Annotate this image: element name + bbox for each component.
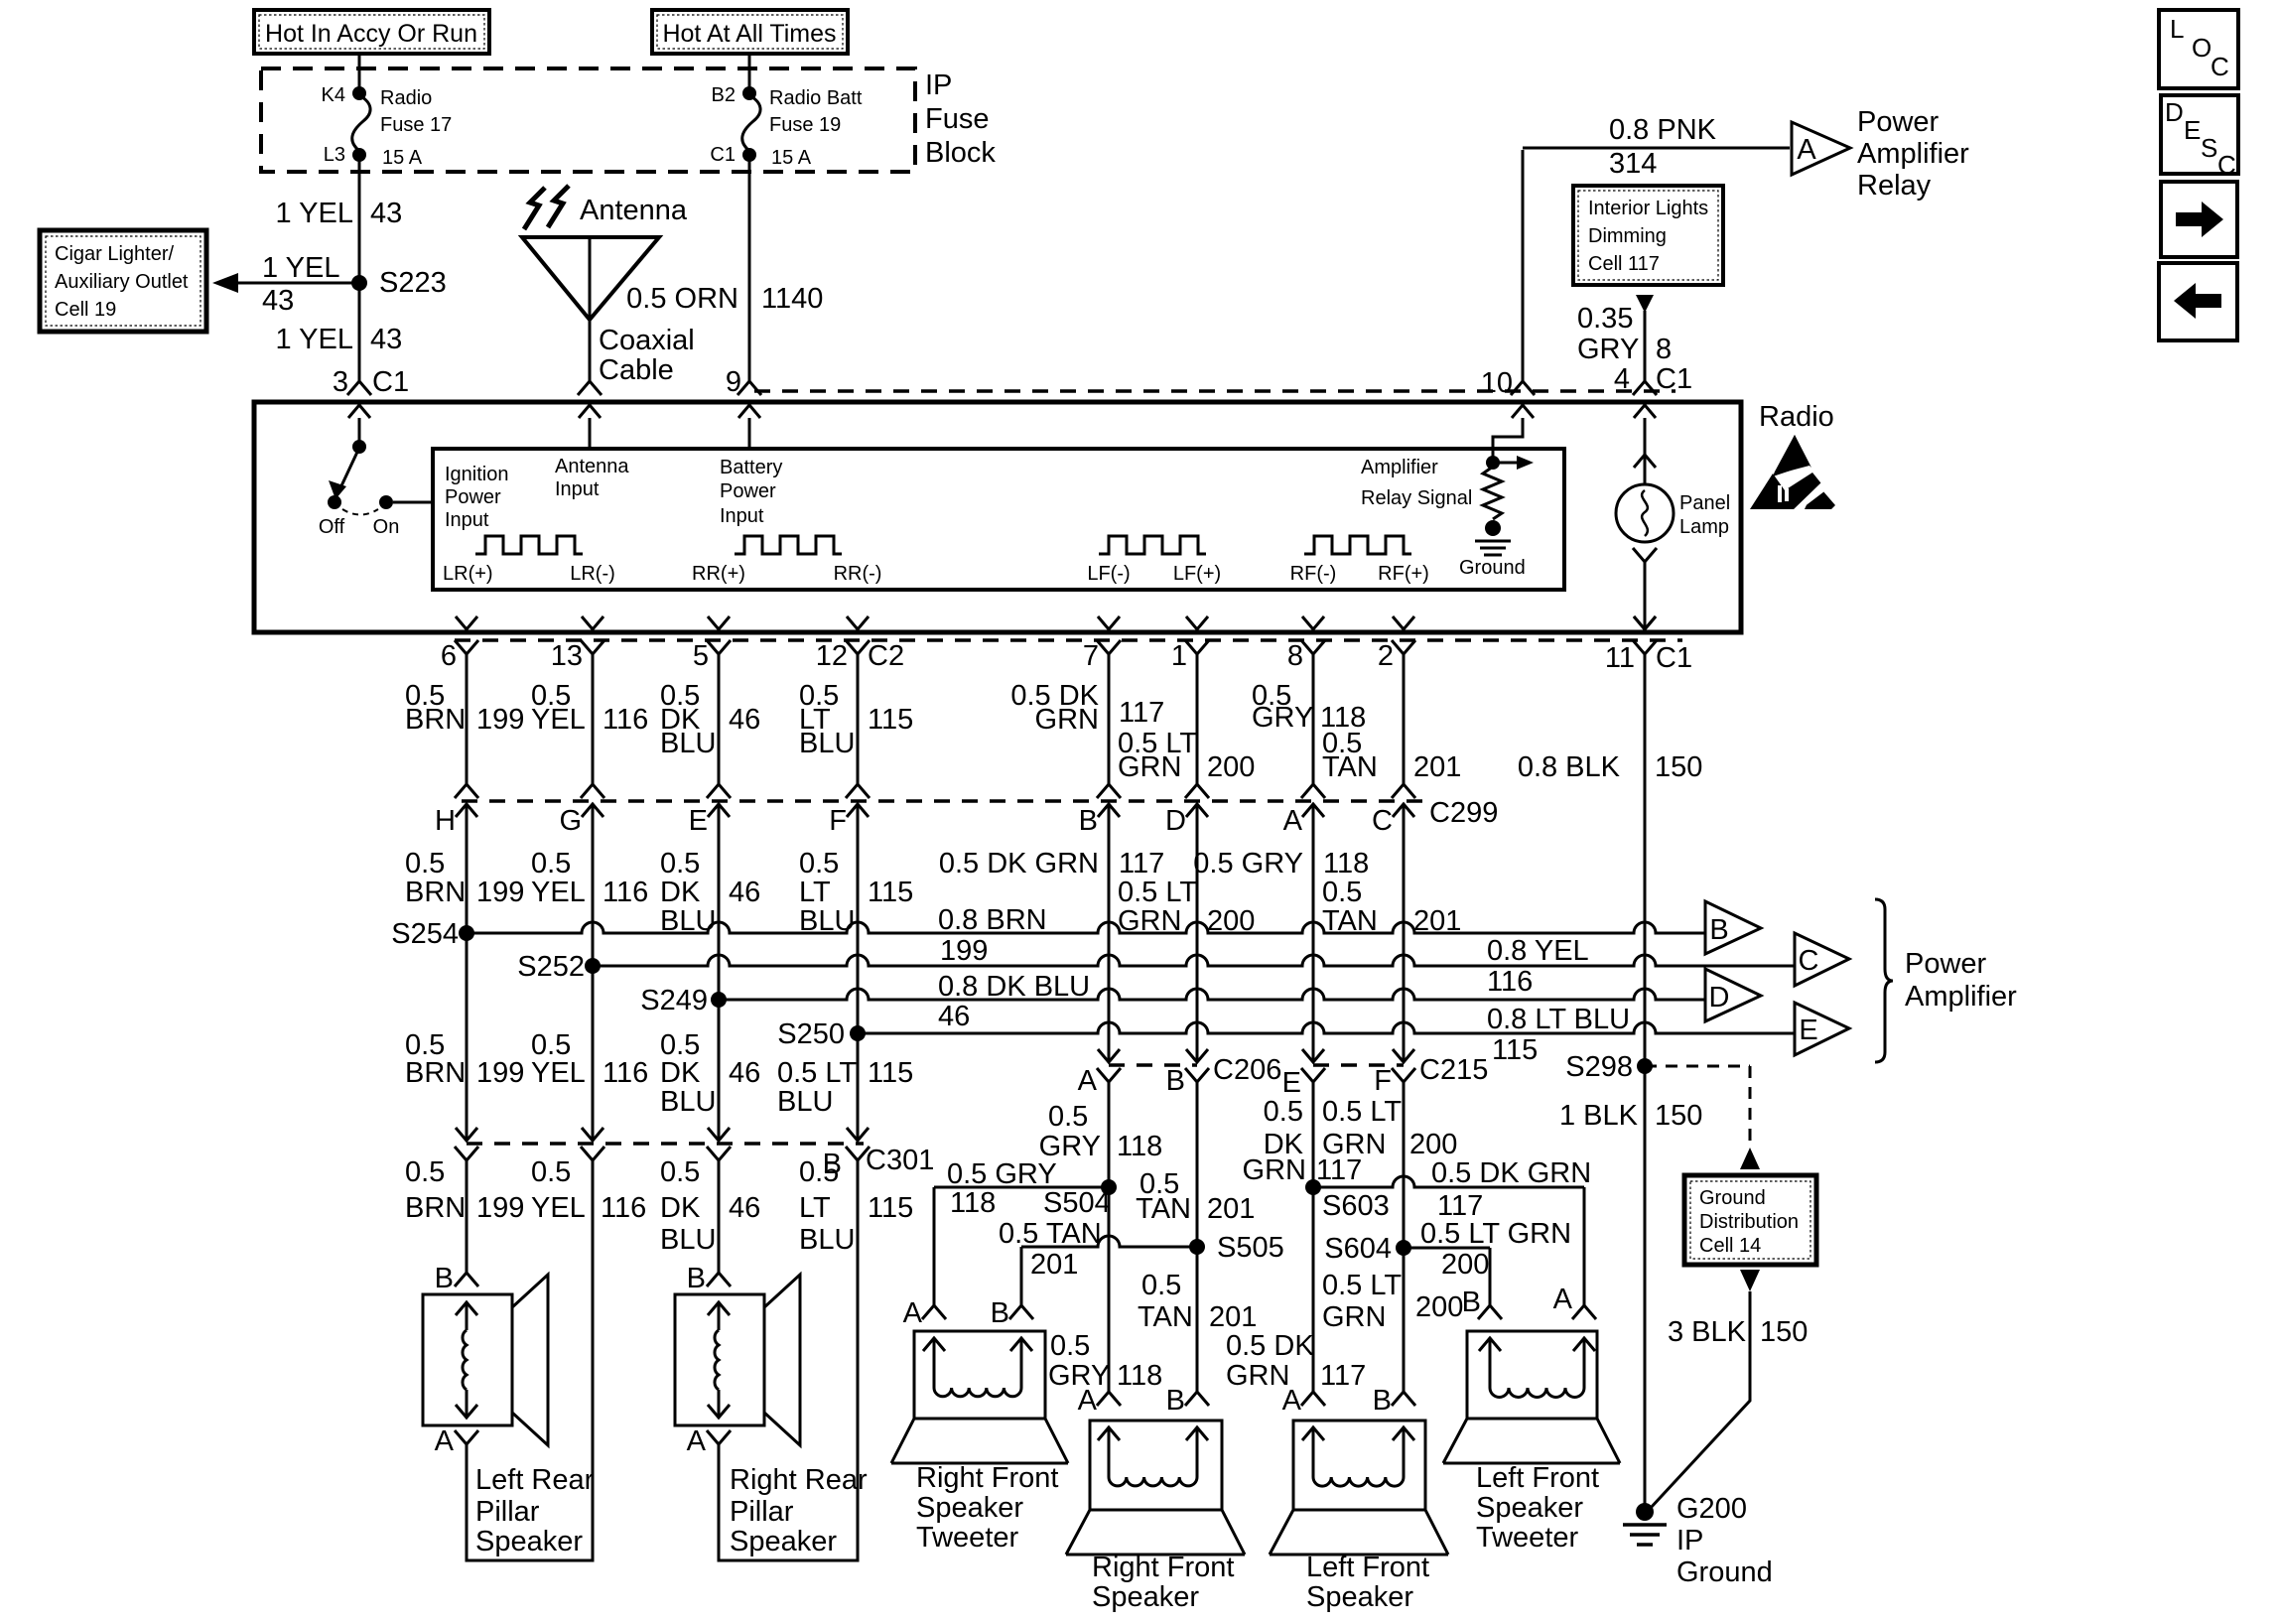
svg-text:116: 116 bbox=[603, 877, 648, 908]
svg-text:115: 115 bbox=[868, 1057, 913, 1089]
svg-text:118: 118 bbox=[1117, 1360, 1162, 1392]
svg-text:DK: DK bbox=[660, 877, 701, 908]
svg-text:12: 12 bbox=[816, 640, 848, 672]
svg-text:BRN: BRN bbox=[405, 1057, 466, 1089]
svg-text:0.5 TAN: 0.5 TAN bbox=[999, 1218, 1102, 1250]
svg-text:201: 201 bbox=[1030, 1249, 1078, 1281]
svg-text:Left Front: Left Front bbox=[1306, 1552, 1429, 1583]
svg-text:A: A bbox=[1553, 1284, 1573, 1315]
svg-text:0.5: 0.5 bbox=[1050, 1330, 1090, 1362]
svg-text:BLU: BLU bbox=[660, 1224, 716, 1256]
svg-text:200: 200 bbox=[1409, 1129, 1457, 1160]
svg-text:IP: IP bbox=[925, 69, 952, 101]
svg-text:YEL: YEL bbox=[531, 877, 586, 908]
svg-text:Fuse 17: Fuse 17 bbox=[380, 114, 452, 136]
svg-text:8: 8 bbox=[1656, 334, 1672, 365]
svg-text:E: E bbox=[1799, 1015, 1817, 1046]
svg-text:LR(+): LR(+) bbox=[443, 563, 493, 585]
svg-text:Cable: Cable bbox=[599, 354, 674, 386]
svg-text:C215: C215 bbox=[1419, 1054, 1488, 1086]
svg-text:0.5: 0.5 bbox=[799, 1156, 839, 1188]
svg-text:S505: S505 bbox=[1217, 1232, 1284, 1264]
svg-text:Amplifier: Amplifier bbox=[1361, 457, 1438, 478]
svg-text:199: 199 bbox=[476, 704, 524, 736]
svg-text:46: 46 bbox=[938, 1001, 970, 1032]
svg-text:B2: B2 bbox=[712, 84, 736, 106]
svg-text:A: A bbox=[435, 1425, 455, 1457]
svg-text:K4: K4 bbox=[322, 84, 345, 106]
svg-text:199: 199 bbox=[476, 1192, 524, 1224]
svg-text:TAN: TAN bbox=[1322, 751, 1378, 783]
svg-text:LT: LT bbox=[799, 1192, 831, 1224]
svg-text:1140: 1140 bbox=[761, 283, 823, 315]
svg-text:Block: Block bbox=[925, 137, 996, 169]
svg-text:Antenna: Antenna bbox=[555, 456, 629, 477]
svg-text:TAN: TAN bbox=[1136, 1193, 1191, 1225]
svg-text:Pillar: Pillar bbox=[730, 1496, 794, 1528]
svg-text:116: 116 bbox=[603, 1057, 648, 1089]
svg-text:LF(+): LF(+) bbox=[1173, 563, 1221, 585]
svg-text:116: 116 bbox=[601, 1192, 646, 1224]
svg-text:0.5: 0.5 bbox=[799, 848, 839, 880]
svg-text:Panel: Panel bbox=[1679, 492, 1730, 514]
svg-text:1: 1 bbox=[1171, 640, 1187, 672]
svg-text:117: 117 bbox=[1119, 848, 1164, 880]
svg-text:A: A bbox=[1078, 1385, 1098, 1417]
svg-text:GRY: GRY bbox=[1252, 702, 1313, 734]
svg-text:B: B bbox=[1462, 1286, 1481, 1318]
svg-text:YEL: YEL bbox=[531, 704, 586, 736]
svg-text:Amplifier: Amplifier bbox=[1905, 981, 2017, 1013]
svg-text:B: B bbox=[1079, 805, 1098, 837]
svg-text:Cell 14: Cell 14 bbox=[1699, 1235, 1761, 1257]
svg-text:7: 7 bbox=[1083, 640, 1099, 672]
svg-text:0.8 PNK: 0.8 PNK bbox=[1609, 114, 1717, 146]
svg-text:B: B bbox=[1166, 1385, 1185, 1417]
svg-text:0.5 DK: 0.5 DK bbox=[1226, 1330, 1314, 1362]
svg-text:RR(+): RR(+) bbox=[692, 563, 745, 585]
svg-text:E: E bbox=[689, 805, 708, 837]
svg-text:1 YEL: 1 YEL bbox=[276, 324, 353, 355]
svg-text:F: F bbox=[1374, 1065, 1392, 1097]
svg-text:Right Rear: Right Rear bbox=[730, 1464, 868, 1496]
svg-text:5: 5 bbox=[693, 640, 709, 672]
svg-text:46: 46 bbox=[729, 1192, 760, 1224]
svg-text:314: 314 bbox=[1609, 148, 1657, 180]
svg-text:BRN: BRN bbox=[405, 877, 466, 908]
svg-text:0.5: 0.5 bbox=[660, 848, 700, 880]
svg-text:Speaker: Speaker bbox=[916, 1492, 1023, 1524]
svg-text:RF(-): RF(-) bbox=[1290, 563, 1337, 585]
svg-text:46: 46 bbox=[729, 877, 760, 908]
svg-text:S504: S504 bbox=[1043, 1187, 1111, 1219]
svg-text:C: C bbox=[1372, 805, 1393, 837]
svg-text:L3: L3 bbox=[324, 144, 345, 166]
svg-text:E: E bbox=[2184, 115, 2201, 145]
svg-text:B: B bbox=[435, 1263, 454, 1294]
svg-text:Right Front: Right Front bbox=[1092, 1552, 1234, 1583]
svg-text:C1: C1 bbox=[372, 366, 409, 398]
svg-text:0.5 ORN: 0.5 ORN bbox=[626, 283, 738, 315]
svg-text:Fuse: Fuse bbox=[925, 103, 989, 135]
svg-text:0.5 LT: 0.5 LT bbox=[777, 1057, 857, 1089]
svg-text:117: 117 bbox=[1119, 697, 1164, 729]
svg-text:0.5 LT: 0.5 LT bbox=[1118, 877, 1197, 908]
svg-text:Speaker: Speaker bbox=[1306, 1581, 1413, 1613]
svg-text:BLU: BLU bbox=[660, 1086, 716, 1118]
svg-text:Relay Signal: Relay Signal bbox=[1361, 487, 1472, 509]
svg-text:Power: Power bbox=[1857, 106, 1940, 138]
svg-text:B: B bbox=[1709, 914, 1728, 946]
svg-text:201: 201 bbox=[1207, 1193, 1255, 1225]
svg-text:43: 43 bbox=[370, 324, 402, 355]
svg-text:Pillar: Pillar bbox=[475, 1496, 540, 1528]
svg-text:Power: Power bbox=[1905, 948, 1987, 980]
svg-text:C301: C301 bbox=[866, 1145, 934, 1176]
svg-text:S252: S252 bbox=[517, 951, 585, 983]
svg-text:D: D bbox=[1165, 805, 1186, 837]
svg-text:B: B bbox=[687, 1263, 706, 1294]
svg-text:Dimming: Dimming bbox=[1588, 225, 1667, 247]
svg-text:Left Rear: Left Rear bbox=[475, 1464, 595, 1496]
svg-text:LR(-): LR(-) bbox=[570, 563, 615, 585]
svg-text:0.5: 0.5 bbox=[531, 1156, 571, 1188]
svg-text:G200: G200 bbox=[1676, 1493, 1747, 1525]
svg-text:Hot At All Times: Hot At All Times bbox=[662, 20, 836, 48]
svg-text:199: 199 bbox=[476, 877, 524, 908]
svg-text:A: A bbox=[903, 1297, 923, 1329]
svg-text:Ignition: Ignition bbox=[445, 464, 509, 485]
svg-text:Cell 19: Cell 19 bbox=[55, 299, 116, 321]
svg-text:RR(-): RR(-) bbox=[834, 563, 882, 585]
svg-text:200: 200 bbox=[1441, 1249, 1489, 1281]
svg-text:A: A bbox=[1283, 805, 1303, 837]
svg-text:GRY: GRY bbox=[1577, 334, 1639, 365]
svg-text:43: 43 bbox=[262, 285, 294, 317]
svg-text:Coaxial: Coaxial bbox=[599, 325, 695, 356]
svg-text:0.5 DK GRN: 0.5 DK GRN bbox=[1431, 1157, 1591, 1189]
svg-text:9: 9 bbox=[726, 366, 741, 398]
svg-text:3 BLK: 3 BLK bbox=[1668, 1316, 1747, 1348]
svg-text:0.5: 0.5 bbox=[405, 1156, 445, 1188]
svg-text:115: 115 bbox=[868, 877, 913, 908]
svg-text:Ground: Ground bbox=[1459, 557, 1526, 579]
svg-text:Speaker: Speaker bbox=[730, 1526, 837, 1557]
svg-text:IP: IP bbox=[1676, 1525, 1703, 1556]
svg-text:Input: Input bbox=[445, 509, 489, 531]
svg-text:Radio: Radio bbox=[1759, 401, 1834, 433]
svg-text:S298: S298 bbox=[1565, 1051, 1633, 1083]
svg-text:GRN: GRN bbox=[1243, 1154, 1306, 1186]
svg-text:C1: C1 bbox=[710, 144, 736, 166]
svg-text:BRN: BRN bbox=[405, 1192, 466, 1224]
svg-text:Right Front: Right Front bbox=[916, 1462, 1058, 1494]
svg-text:G: G bbox=[559, 805, 582, 837]
svg-text:S604: S604 bbox=[1324, 1233, 1392, 1265]
svg-text:BLU: BLU bbox=[660, 728, 716, 759]
svg-text:Off: Off bbox=[319, 516, 345, 538]
svg-text:GRN: GRN bbox=[1226, 1360, 1289, 1392]
svg-text:0.5 DK GRN: 0.5 DK GRN bbox=[939, 848, 1099, 880]
svg-text:13: 13 bbox=[551, 640, 583, 672]
svg-text:115: 115 bbox=[1492, 1034, 1538, 1066]
svg-text:S: S bbox=[2201, 133, 2217, 163]
svg-text:0.5 LT: 0.5 LT bbox=[1322, 1096, 1402, 1128]
svg-text:0.5: 0.5 bbox=[1264, 1096, 1303, 1128]
svg-text:Fuse 19: Fuse 19 bbox=[769, 114, 841, 136]
svg-text:Interior Lights: Interior Lights bbox=[1588, 198, 1708, 219]
svg-text:Lamp: Lamp bbox=[1679, 516, 1729, 538]
svg-text:F: F bbox=[829, 805, 847, 837]
svg-text:B: B bbox=[991, 1297, 1009, 1329]
svg-text:Input: Input bbox=[555, 478, 600, 500]
svg-text:B: B bbox=[1166, 1065, 1185, 1097]
svg-text:200: 200 bbox=[1207, 751, 1255, 783]
svg-text:C1: C1 bbox=[1656, 642, 1692, 674]
svg-text:C206: C206 bbox=[1213, 1054, 1281, 1086]
svg-text:Ground: Ground bbox=[1699, 1187, 1766, 1209]
svg-text:Distribution: Distribution bbox=[1699, 1211, 1799, 1233]
svg-text:BLU: BLU bbox=[799, 1224, 855, 1256]
svg-text:LT: LT bbox=[799, 877, 831, 908]
svg-text:0.5: 0.5 bbox=[531, 848, 571, 880]
svg-text:0.8 LT BLU: 0.8 LT BLU bbox=[1487, 1004, 1630, 1035]
svg-text:Cell 117: Cell 117 bbox=[1588, 253, 1660, 275]
svg-text:118: 118 bbox=[1323, 848, 1369, 880]
svg-text:46: 46 bbox=[729, 704, 760, 736]
svg-text:A: A bbox=[1282, 1385, 1302, 1417]
svg-text:Radio Batt: Radio Batt bbox=[769, 87, 863, 109]
svg-text:201: 201 bbox=[1209, 1301, 1257, 1333]
svg-text:150: 150 bbox=[1655, 751, 1702, 783]
svg-text:DK: DK bbox=[660, 1057, 701, 1089]
svg-text:Relay: Relay bbox=[1857, 170, 1932, 202]
svg-text:Cigar Lighter/: Cigar Lighter/ bbox=[55, 243, 175, 265]
svg-text:LF(-): LF(-) bbox=[1087, 563, 1130, 585]
svg-text:C: C bbox=[2217, 150, 2236, 180]
svg-text:Battery: Battery bbox=[720, 457, 782, 478]
svg-text:0.5: 0.5 bbox=[1322, 877, 1362, 908]
svg-text:D: D bbox=[1709, 982, 1730, 1014]
svg-text:S223: S223 bbox=[379, 267, 447, 299]
svg-text:S254: S254 bbox=[391, 918, 459, 950]
svg-text:0.8 BRN: 0.8 BRN bbox=[938, 904, 1047, 936]
svg-text:201: 201 bbox=[1413, 751, 1461, 783]
svg-text:43: 43 bbox=[370, 198, 402, 229]
svg-text:2: 2 bbox=[1378, 640, 1394, 672]
svg-text:Amplifier: Amplifier bbox=[1857, 138, 1969, 170]
svg-text:L: L bbox=[2170, 14, 2184, 44]
svg-text:0.5: 0.5 bbox=[1141, 1270, 1181, 1301]
svg-text:C299: C299 bbox=[1429, 797, 1498, 829]
svg-text:Tweeter: Tweeter bbox=[1476, 1522, 1578, 1554]
svg-text:Input: Input bbox=[720, 505, 764, 527]
svg-text:0.5: 0.5 bbox=[405, 848, 445, 880]
svg-text:E: E bbox=[1282, 1067, 1301, 1099]
svg-text:117: 117 bbox=[1320, 1360, 1366, 1392]
svg-text:A: A bbox=[687, 1425, 707, 1457]
svg-text:1 YEL: 1 YEL bbox=[262, 252, 339, 284]
svg-text:46: 46 bbox=[729, 1057, 760, 1089]
svg-text:GRN: GRN bbox=[1035, 704, 1099, 736]
svg-text:0.8 BLK: 0.8 BLK bbox=[1518, 751, 1621, 783]
svg-text:11: 11 bbox=[1605, 642, 1635, 674]
svg-text:0.35: 0.35 bbox=[1577, 303, 1633, 335]
svg-text:Antenna: Antenna bbox=[580, 195, 688, 226]
svg-text:0.8 YEL: 0.8 YEL bbox=[1487, 935, 1589, 967]
svg-text:Speaker: Speaker bbox=[475, 1526, 583, 1557]
svg-text:B: B bbox=[1373, 1385, 1392, 1417]
svg-text:0.5 GRY: 0.5 GRY bbox=[1193, 848, 1303, 880]
svg-text:GRY: GRY bbox=[1039, 1131, 1101, 1162]
svg-text:8: 8 bbox=[1287, 640, 1303, 672]
svg-text:GRN: GRN bbox=[1322, 1301, 1386, 1333]
svg-text:Hot In Accy Or Run: Hot In Accy Or Run bbox=[265, 20, 477, 48]
svg-text:Left Front: Left Front bbox=[1476, 1462, 1599, 1494]
svg-text:116: 116 bbox=[603, 704, 648, 736]
svg-text:Radio: Radio bbox=[380, 87, 432, 109]
svg-text:10: 10 bbox=[1481, 367, 1513, 399]
svg-text:GRN: GRN bbox=[1322, 1129, 1386, 1160]
svg-text:YEL: YEL bbox=[531, 1057, 586, 1089]
svg-text:O: O bbox=[2192, 33, 2211, 63]
svg-text:Ground: Ground bbox=[1676, 1556, 1773, 1588]
svg-text:116: 116 bbox=[1487, 966, 1533, 998]
svg-text:115: 115 bbox=[868, 704, 913, 736]
svg-text:1 BLK: 1 BLK bbox=[1559, 1100, 1639, 1132]
svg-text:0.5 LT GRN: 0.5 LT GRN bbox=[1420, 1218, 1571, 1250]
svg-text:TAN: TAN bbox=[1138, 1301, 1193, 1333]
svg-text:1 YEL: 1 YEL bbox=[276, 198, 353, 229]
svg-text:YEL: YEL bbox=[531, 1192, 586, 1224]
svg-text:0.5: 0.5 bbox=[1048, 1101, 1088, 1133]
svg-text:Auxiliary Outlet: Auxiliary Outlet bbox=[55, 271, 189, 293]
svg-text:0.8 DK BLU: 0.8 DK BLU bbox=[938, 971, 1090, 1003]
svg-text:0.5: 0.5 bbox=[660, 1156, 700, 1188]
svg-text:GRN: GRN bbox=[1118, 751, 1181, 783]
svg-text:Speaker: Speaker bbox=[1092, 1581, 1199, 1613]
svg-text:C: C bbox=[2211, 52, 2229, 81]
svg-text:199: 199 bbox=[476, 1057, 524, 1089]
svg-text:BLU: BLU bbox=[799, 728, 855, 759]
svg-text:6: 6 bbox=[441, 640, 457, 672]
svg-text:Power: Power bbox=[720, 480, 776, 502]
svg-text:118: 118 bbox=[950, 1187, 996, 1219]
svg-text:Speaker: Speaker bbox=[1476, 1492, 1583, 1524]
svg-text:118: 118 bbox=[1117, 1131, 1162, 1162]
svg-text:S249: S249 bbox=[640, 985, 708, 1016]
svg-text:BRN: BRN bbox=[405, 704, 466, 736]
svg-text:S603: S603 bbox=[1322, 1190, 1390, 1222]
svg-text:On: On bbox=[373, 516, 400, 538]
svg-text:3: 3 bbox=[333, 366, 348, 398]
svg-text:H: H bbox=[435, 805, 456, 837]
svg-text:RF(+): RF(+) bbox=[1378, 563, 1429, 585]
svg-text:BLU: BLU bbox=[777, 1086, 833, 1118]
svg-text:200: 200 bbox=[1415, 1291, 1463, 1323]
svg-text:Tweeter: Tweeter bbox=[916, 1522, 1018, 1554]
svg-text:DK: DK bbox=[660, 1192, 701, 1224]
svg-text:150: 150 bbox=[1760, 1316, 1808, 1348]
svg-text:0.5 LT: 0.5 LT bbox=[1322, 1270, 1402, 1301]
svg-text:0.5 GRY: 0.5 GRY bbox=[947, 1158, 1057, 1190]
svg-text:115: 115 bbox=[868, 1192, 913, 1224]
svg-text:D: D bbox=[2165, 97, 2184, 127]
svg-text:A: A bbox=[1078, 1065, 1098, 1097]
svg-text:C: C bbox=[1799, 945, 1819, 977]
svg-text:15 A: 15 A bbox=[382, 147, 423, 169]
svg-text:199: 199 bbox=[940, 935, 988, 967]
svg-text:C2: C2 bbox=[868, 640, 904, 672]
svg-text:150: 150 bbox=[1655, 1100, 1702, 1132]
svg-text:A: A bbox=[1797, 134, 1816, 166]
svg-text:S250: S250 bbox=[777, 1018, 845, 1050]
svg-text:15 A: 15 A bbox=[771, 147, 812, 169]
svg-text:Power: Power bbox=[445, 486, 501, 508]
